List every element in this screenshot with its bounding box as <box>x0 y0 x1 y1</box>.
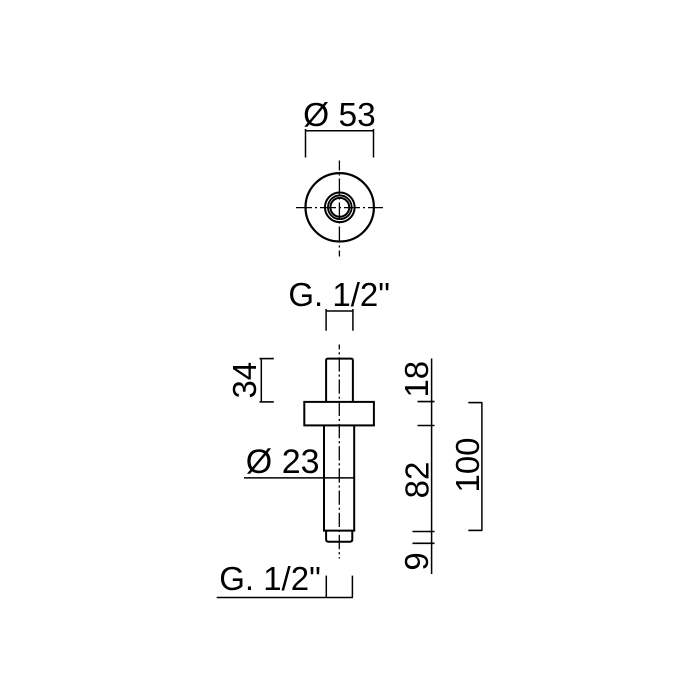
thread boss circle <box>325 192 355 222</box>
dimension line right inner column <box>431 359 433 575</box>
dimension line D53 <box>306 130 374 132</box>
extension line D53 right <box>373 129 375 158</box>
dimension line 34 <box>260 359 262 403</box>
flange (side view) <box>304 402 374 426</box>
tick 34 bottom <box>260 401 274 403</box>
tick 9 bottom <box>413 542 435 544</box>
extension line G1/2 top right <box>352 309 354 331</box>
leader line G1/2 bottom <box>217 597 353 599</box>
svg-text:9: 9 <box>398 552 435 570</box>
svg-text:82: 82 <box>398 462 435 499</box>
pipe left edge <box>323 425 325 530</box>
svg-text:18: 18 <box>398 361 435 398</box>
pipe bottom step line <box>323 530 355 532</box>
top view vertical centerline <box>338 161 340 257</box>
dimension line G 1/2 top <box>326 310 353 312</box>
flange outer circle (top view) <box>306 173 374 241</box>
extension line G1/2 bottom right <box>351 576 353 598</box>
tick 18 bottom <box>418 425 435 427</box>
bottom thread <box>326 531 352 542</box>
thread major circle <box>328 195 352 219</box>
tick 82 bottom <box>413 531 435 533</box>
top view horizontal centerline <box>296 207 383 209</box>
tick 18 top <box>418 401 435 403</box>
extension line G1/2 bottom left <box>325 576 327 598</box>
leader line D23 <box>244 477 355 479</box>
side view centerline <box>338 345 340 559</box>
top thread body (side view) <box>326 359 353 402</box>
svg-text:G. 1/2": G. 1/2" <box>288 276 390 313</box>
dimension line 100 <box>481 403 483 531</box>
extension line D53 left <box>305 129 307 158</box>
thread bore circle <box>330 198 349 217</box>
svg-text:G. 1/2": G. 1/2" <box>219 560 321 597</box>
svg-text:100: 100 <box>449 437 486 492</box>
tick 34 top <box>260 358 274 360</box>
pipe right edge <box>353 425 355 530</box>
tick 100 top <box>468 402 482 404</box>
extension line G1/2 top left <box>325 309 327 331</box>
svg-text:34: 34 <box>226 362 263 399</box>
svg-text:Ø 23: Ø 23 <box>246 443 320 481</box>
tick 100 bottom <box>468 529 482 531</box>
svg-text:Ø 53: Ø 53 <box>303 97 376 134</box>
